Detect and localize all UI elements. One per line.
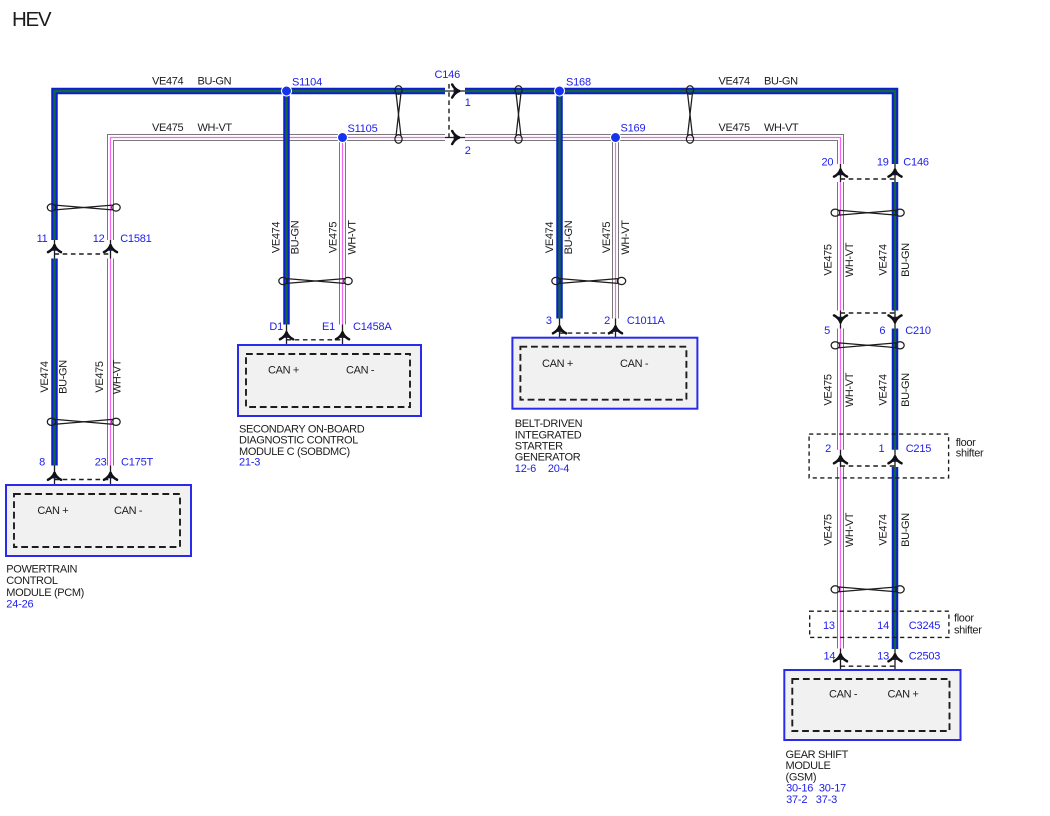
wire VE475 top horizontal right of C146 + corner down (VE475 WH-VT) — [465, 138, 841, 165]
twisted-pair symbol above C175T — [47, 418, 120, 425]
svg-text:WH-VT: WH-VT — [347, 220, 359, 255]
connector C1011A pins into BISG — [546, 315, 666, 355]
wire VE475 right vertical C210 to C215 (VE475 WH-VT) — [837, 329, 844, 450]
C1011A pin 3 arrow — [553, 326, 566, 333]
connector C3245 floor shifter — [810, 611, 982, 637]
C175T pin 23 arrow — [104, 473, 117, 480]
C1458A pin D1 arrow — [280, 332, 293, 339]
C1011A connector dashed line — [560, 332, 616, 334]
svg-text:floor: floor — [954, 613, 974, 625]
C215 pin 2 arrow — [834, 456, 847, 463]
svg-text:CAN -: CAN - — [114, 505, 143, 517]
svg-text:(GSM): (GSM) — [786, 771, 817, 783]
C175T connector dashed line — [55, 479, 111, 481]
svg-text:C1581: C1581 — [120, 233, 151, 245]
splice S169 — [611, 123, 646, 143]
svg-text:VE474: VE474 — [39, 361, 51, 393]
svg-text:C175T: C175T — [121, 456, 153, 468]
svg-text:VE474: VE474 — [152, 76, 184, 88]
C215 connector dashed line — [841, 465, 896, 467]
svg-text:shifter: shifter — [954, 624, 982, 636]
svg-text:BU-GN: BU-GN — [764, 76, 798, 88]
svg-text:C1011A: C1011A — [627, 315, 666, 327]
svg-text:37-2: 37-2 — [786, 794, 807, 806]
C146 pin 20 arrow — [834, 170, 847, 177]
connector C146 in-line — [435, 69, 471, 157]
svg-text:11: 11 — [37, 233, 48, 245]
wire VE475 drop from S169 to BISG (VE475 WH-VT) — [612, 138, 619, 319]
svg-text:6: 6 — [879, 325, 885, 337]
C2503 pin 14 arrow — [834, 654, 847, 661]
svg-text:WH-VT: WH-VT — [764, 122, 799, 134]
module box SOBDMC — [238, 345, 421, 416]
svg-text:CAN -: CAN - — [829, 689, 858, 701]
svg-text:30-17: 30-17 — [819, 783, 846, 795]
connector C215 floor shifter — [809, 434, 984, 478]
connector C210 in-line — [824, 311, 931, 338]
C1581 pin 12 arrow — [104, 245, 117, 252]
svg-text:13: 13 — [877, 651, 889, 663]
connector C175T pins into PCM — [39, 456, 153, 502]
svg-text:C3245: C3245 — [909, 620, 940, 632]
svg-text:CONTROL: CONTROL — [6, 575, 58, 587]
connector C1458A pins into SOBDMC — [269, 321, 392, 362]
svg-text:WH-VT: WH-VT — [844, 512, 856, 547]
C1458A pin E1 arrow — [336, 332, 349, 339]
label BELT-DRIVEN INTEGRATED STARTER GENERATOR 12-6 20-4 — [515, 418, 583, 475]
C1581 pin 11 arrow — [48, 245, 61, 252]
wire stem GSM pin 13 — [894, 649, 896, 679]
wire stem through C1581 pin 12 — [110, 240, 112, 259]
svg-text:24-26: 24-26 — [6, 599, 33, 611]
wire stem through C146 pin 20 — [840, 164, 842, 182]
svg-text:1: 1 — [878, 443, 884, 455]
svg-text:VE474: VE474 — [544, 222, 556, 254]
twisted-pair symbol above C1458A — [279, 277, 352, 284]
twisted-pair symbol above C1011A — [552, 277, 626, 284]
svg-text:14: 14 — [823, 651, 835, 663]
svg-text:BU-GN: BU-GN — [900, 243, 912, 277]
svg-text:C215: C215 — [906, 443, 932, 455]
wire stem BISG pin 2 — [615, 319, 617, 356]
svg-text:12: 12 — [93, 233, 105, 245]
wire stem through C210 pin 5 — [840, 311, 842, 329]
svg-text:BU-GN: BU-GN — [290, 220, 302, 254]
svg-text:C1458A: C1458A — [353, 321, 392, 333]
wire stem SOBDMC pin E1 — [342, 325, 344, 363]
svg-text:VE475: VE475 — [822, 374, 834, 406]
C1458A connector dashed line — [287, 339, 343, 341]
C146 pin 19 arrow — [889, 170, 902, 177]
svg-text:WH-VT: WH-VT — [844, 372, 856, 407]
C2503 pin 13 arrow — [889, 654, 902, 661]
svg-text:VE475: VE475 — [94, 361, 106, 393]
svg-text:3: 3 — [546, 315, 552, 327]
svg-text:VE474: VE474 — [271, 222, 283, 254]
svg-text:S169: S169 — [621, 123, 646, 135]
wire VE474 left lower vertical to C175T (VE474 BU-GN) — [51, 259, 58, 466]
svg-text:VE475: VE475 — [822, 514, 834, 546]
svg-text:CAN +: CAN + — [888, 689, 919, 701]
wire stem through C215 pin 1 — [894, 450, 896, 467]
svg-text:INTEGRATED: INTEGRATED — [515, 429, 582, 441]
svg-text:CAN +: CAN + — [542, 358, 573, 370]
C2503 connector dashed line — [841, 665, 896, 667]
svg-text:VE474: VE474 — [878, 244, 890, 276]
wire VE474 right vertical C215 to C2503 (VE474 BU-GN) — [892, 467, 899, 649]
svg-text:C2503: C2503 — [909, 651, 940, 663]
svg-text:CAN +: CAN + — [268, 365, 299, 377]
svg-text:VE474: VE474 — [878, 514, 890, 546]
svg-text:POWERTRAIN: POWERTRAIN — [6, 563, 77, 575]
module box PCM — [6, 485, 191, 556]
wire VE474 drop from S1104 to SOBDMC (VE474 BU-GN) — [283, 91, 290, 325]
C1011A pin 2 arrow — [609, 326, 622, 333]
svg-text:2: 2 — [465, 145, 471, 157]
svg-text:VE475: VE475 — [822, 244, 834, 276]
wire stem through C146 pin 19 — [894, 164, 896, 182]
svg-text:C146: C146 — [903, 156, 929, 168]
label POWERTRAIN CONTROL MODULE (PCM) 24-26 — [6, 563, 84, 610]
wire stem BISG pin 3 — [559, 319, 561, 356]
svg-text:D1: D1 — [269, 321, 283, 333]
wire VE475 right vertical C215 to C2503 (VE475 WH-VT) — [837, 467, 844, 649]
svg-text:VE475: VE475 — [719, 122, 751, 134]
label SECONDARY ON-BOARD DIAGNOSTIC CONTROL MODULE C (SOBDMC) 21-3 — [239, 424, 365, 469]
svg-text:1: 1 — [465, 97, 471, 109]
twisted-pair symbol above C3245 — [831, 586, 904, 593]
svg-text:E1: E1 — [322, 321, 335, 333]
svg-text:MODULE: MODULE — [786, 760, 831, 772]
svg-text:VE474: VE474 — [878, 374, 890, 406]
C215 pin 1 arrow — [889, 456, 902, 463]
svg-text:GEAR SHIFT: GEAR SHIFT — [786, 749, 849, 761]
svg-text:13: 13 — [823, 620, 835, 632]
svg-text:WH-VT: WH-VT — [844, 242, 856, 277]
svg-text:GENERATOR: GENERATOR — [515, 452, 581, 464]
svg-text:19: 19 — [877, 156, 889, 168]
wire stem PCM pin 23 — [110, 466, 112, 503]
module box GSM — [784, 670, 960, 740]
svg-text:CAN +: CAN + — [37, 505, 68, 517]
twisted-pair symbol right of S169 — [686, 86, 693, 143]
svg-text:shifter: shifter — [956, 448, 984, 460]
svg-text:5: 5 — [824, 325, 830, 337]
splice S1104 — [282, 77, 323, 97]
svg-text:WH-VT: WH-VT — [112, 359, 124, 394]
svg-text:BU-GN: BU-GN — [58, 360, 70, 394]
svg-text:BU-GN: BU-GN — [198, 76, 232, 88]
svg-text:STARTER: STARTER — [515, 441, 563, 453]
wire stem SOBDMC pin D1 — [286, 325, 288, 363]
twisted-pair symbol below C146 right — [831, 209, 904, 216]
wire VE474 top horizontal right of C146 + corner down (VE474 BU-GN) — [465, 91, 895, 164]
wire stem through C215 pin 2 — [840, 450, 842, 467]
svg-text:S1105: S1105 — [348, 123, 378, 135]
svg-text:CAN -: CAN - — [620, 358, 649, 370]
C210 connector dashed line — [841, 312, 896, 314]
svg-text:21-3: 21-3 — [239, 457, 260, 469]
splice S1105 — [338, 123, 378, 143]
label GEAR SHIFT MODULE (GSM) 30-16 30-17 37-2 37-3 — [786, 749, 849, 806]
svg-text:14: 14 — [877, 620, 889, 632]
twisted-pair symbol right of C146 — [515, 86, 522, 143]
svg-text:VE474: VE474 — [719, 76, 751, 88]
svg-text:VE475: VE475 — [601, 222, 613, 254]
wire VE475 drop from S1105 to SOBDMC (VE475 WH-VT) — [339, 138, 346, 325]
svg-text:BU-GN: BU-GN — [563, 220, 575, 254]
svg-text:HEV: HEV — [12, 8, 52, 31]
svg-text:WH-VT: WH-VT — [620, 220, 632, 255]
wire stem PCM pin 8 — [54, 466, 56, 503]
connector C1581 in-line — [37, 233, 152, 259]
wire stem through C1581 pin 11 — [54, 240, 56, 259]
C146 right connector dashed line — [841, 178, 896, 180]
svg-text:BU-GN: BU-GN — [900, 513, 912, 547]
svg-text:20: 20 — [821, 156, 833, 168]
svg-text:2: 2 — [825, 443, 831, 455]
svg-text:23: 23 — [95, 456, 107, 468]
C175T pin 8 arrow — [48, 473, 61, 480]
svg-text:C146: C146 — [435, 69, 461, 81]
svg-text:VE475: VE475 — [328, 222, 340, 254]
twisted-pair symbol above C1581 — [47, 204, 120, 211]
svg-text:C210: C210 — [905, 325, 931, 337]
svg-text:VE475: VE475 — [152, 122, 184, 134]
C210 pin 5 arrow — [834, 315, 847, 322]
splice S168 — [555, 77, 591, 97]
module box BISG — [512, 338, 697, 409]
svg-text:37-3: 37-3 — [816, 794, 837, 806]
wire stem GSM pin 14 — [840, 649, 842, 680]
wire stem through C210 pin 6 — [894, 311, 896, 329]
wire VE475 right vertical C146 to C210 (VE475 WH-VT) — [837, 182, 844, 311]
wire VE475 left lower vertical to C175T (VE475 WH-VT) — [107, 259, 114, 466]
svg-text:CAN -: CAN - — [346, 365, 375, 377]
svg-text:DIAGNOSTIC CONTROL: DIAGNOSTIC CONTROL — [239, 435, 358, 447]
svg-text:8: 8 — [39, 456, 45, 468]
wire VE474 left vertical + top horizontal to C146 (VE474 BU-GN) — [55, 91, 446, 240]
C210 pin 6 arrow — [889, 315, 902, 322]
connector C2503 pins into GSM — [823, 649, 940, 680]
svg-text:S1104: S1104 — [292, 77, 322, 89]
svg-text:30-16: 30-16 — [786, 783, 813, 795]
wire VE475 left vertical + top horizontal to C146 (VE475 WH-VT) — [111, 138, 446, 241]
svg-text:12-6: 12-6 — [515, 463, 536, 475]
svg-text:BU-GN: BU-GN — [900, 373, 912, 407]
svg-text:WH-VT: WH-VT — [198, 122, 233, 134]
connector C146 pins 20/19 — [821, 156, 928, 182]
wire VE474 drop from S168 to BISG (VE474 BU-GN) — [556, 91, 563, 319]
svg-text:2: 2 — [604, 315, 610, 327]
svg-text:MODULE (PCM): MODULE (PCM) — [6, 587, 84, 599]
wire VE474 right vertical C146 to C210 (VE474 BU-GN) — [892, 182, 899, 311]
twisted-pair symbol left of C146 — [395, 86, 402, 143]
svg-text:BELT-DRIVEN: BELT-DRIVEN — [515, 418, 583, 430]
twisted-pair symbol below C210 — [831, 342, 904, 349]
svg-text:20-4: 20-4 — [548, 463, 569, 475]
C1581 connector dashed line — [55, 253, 111, 255]
svg-text:S168: S168 — [566, 77, 591, 89]
wire VE474 right vertical C210 to C215 (VE474 BU-GN) — [892, 329, 899, 450]
